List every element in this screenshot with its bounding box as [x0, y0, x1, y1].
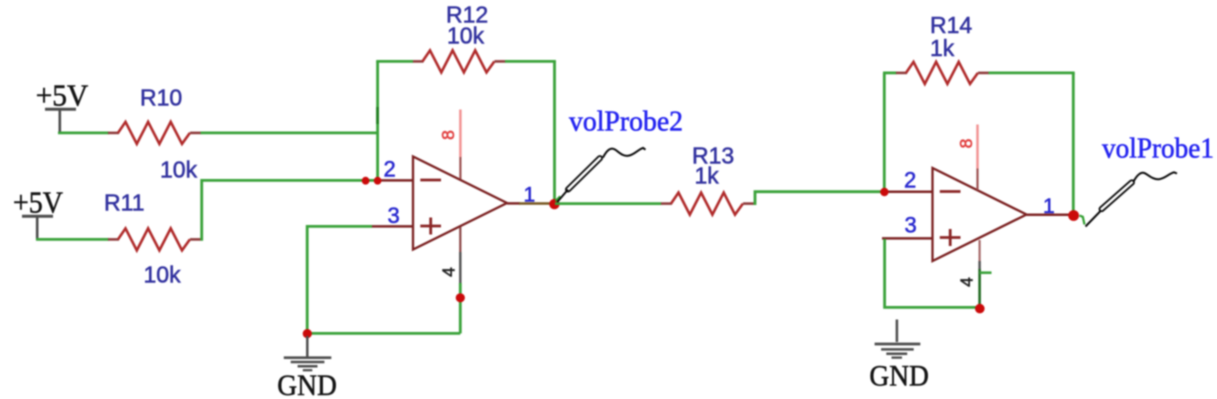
wire U1 pin3 to ground rail [307, 226, 460, 333]
svg-text:2: 2 [904, 168, 916, 193]
svg-text:1: 1 [1043, 195, 1055, 218]
op-amp U1 triangle [413, 157, 507, 250]
junction dot U2 pin4 / rail [975, 304, 985, 314]
power +5V source V1 [45, 109, 76, 133]
svg-text:GND: GND [277, 369, 337, 399]
power +5V source V2 [22, 216, 53, 240]
wire feedback2 left vertical [883, 73, 886, 192]
svg-text:2: 2 [384, 157, 396, 182]
svg-text:GND: GND [869, 359, 929, 392]
wire U1 pin4 down to rail [459, 283, 462, 333]
op-amp U2 output stub pin 1 [1027, 213, 1071, 216]
svg-text:1k: 1k [695, 163, 720, 189]
wire V2 to R11 [36, 238, 109, 241]
svg-text:volProbe1: volProbe1 [1102, 132, 1214, 164]
op-amp U1 pin 3 stub [372, 225, 414, 228]
wire U2 pin3 to ground rail [885, 239, 980, 307]
op-amp U1 minus sign [420, 179, 441, 182]
resistor R10 [108, 122, 201, 144]
wire R10 to node [201, 131, 378, 134]
op-amp U2 pin 2 stub [889, 191, 933, 194]
probe volProbe1 tip hook [1080, 216, 1085, 225]
svg-text:R11: R11 [104, 190, 145, 216]
op-amp U2 minus sign [940, 190, 961, 193]
probe volProbe1 needle [1086, 211, 1102, 227]
svg-text:3: 3 [388, 203, 400, 228]
svg-text:3: 3 [905, 213, 917, 238]
ground symbol GND2 [875, 320, 921, 358]
resistor R14 [896, 62, 989, 84]
svg-text:4: 4 [438, 267, 458, 277]
op-amp U1 pin 8 line [459, 110, 462, 158]
probe volProbe2 cable [603, 148, 646, 158]
wire R11 to inverting input [201, 180, 382, 239]
junction dot ground rail 1 [303, 329, 312, 338]
probe volProbe2 body [565, 155, 603, 192]
wire vertical feedback/input node [376, 61, 379, 181]
op-amp U2 plus sign [940, 229, 961, 246]
junction dot output node U2 [1068, 210, 1079, 221]
wire V1 to R10 [58, 131, 109, 134]
resistor R11 [108, 228, 201, 250]
op-amp U2 pin 8 line [976, 125, 979, 169]
junction dot U1 inverting input a [362, 177, 370, 185]
svg-text:4: 4 [957, 277, 977, 287]
op-amp U2 triangle [933, 168, 1027, 261]
wire output node to R13 [555, 202, 662, 205]
svg-text:10k: 10k [447, 23, 485, 49]
junction dot U1 pin4 [456, 293, 465, 302]
junction dot output node U1 [549, 199, 559, 209]
wire U2 pin4 elbow [980, 269, 992, 308]
resistor R12 [413, 50, 506, 72]
wire feedback2 top left (R14) [883, 72, 897, 75]
junction dot U2 inverting input [880, 188, 888, 196]
resistor R13 [661, 193, 754, 215]
probe volProbe2 tip hook [556, 196, 561, 201]
svg-text:1k: 1k [930, 35, 955, 61]
op-amp U2 pin 4 line [978, 240, 980, 261]
probe volProbe1 cable [1134, 172, 1177, 181]
ground symbol GND1 [284, 336, 332, 370]
wire feedback top left (R12) [376, 60, 413, 63]
wire feedback2 right vertical to output node [1072, 73, 1075, 216]
op-amp U1 plus sign [420, 218, 441, 235]
svg-text:R10: R10 [140, 85, 182, 111]
junction dot U1 inverting input b [374, 177, 382, 185]
wire R13 jog to U2 pin2 [754, 192, 885, 204]
svg-text:volProbe2: volProbe2 [569, 105, 683, 137]
wire feedback2 top right (R14) [989, 72, 1075, 75]
probe volProbe2 needle [557, 190, 568, 203]
op-amp U2 pin 3 stub [882, 237, 933, 240]
op-amp U1 pin 2 stub [380, 179, 414, 182]
svg-text:8: 8 [438, 130, 458, 140]
wire feedback top right (R12) [505, 60, 556, 63]
probe volProbe1 body [1099, 179, 1135, 212]
wire feedback right vertical to output node [553, 61, 556, 204]
svg-text:10k: 10k [144, 262, 182, 288]
svg-text:+5V: +5V [36, 78, 89, 113]
svg-text:10k: 10k [160, 157, 198, 183]
svg-text:1: 1 [524, 184, 536, 207]
svg-text:8: 8 [956, 139, 976, 149]
svg-text:+5V: +5V [13, 184, 64, 219]
op-amp U1 pin 4 line [459, 227, 461, 252]
op-amp U1 output stub pin 1 [507, 202, 520, 205]
